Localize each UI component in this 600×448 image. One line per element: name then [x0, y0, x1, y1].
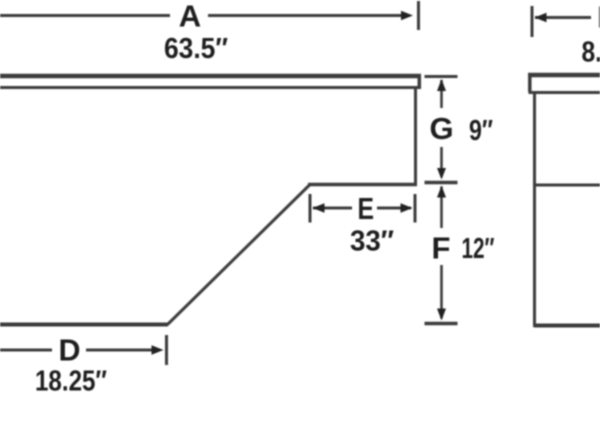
svg-text:33″: 33″: [350, 226, 394, 258]
dimension E left extension tick: [309, 194, 312, 223]
svg-text:G: G: [429, 111, 453, 146]
svg-text:8.5″: 8.5″: [582, 37, 600, 69]
toolbox end-view bottom edge: [534, 324, 600, 328]
svg-text:18.25″: 18.25″: [35, 366, 107, 398]
svg-text:A: A: [179, 0, 201, 34]
svg-text:F: F: [432, 231, 451, 266]
svg-text:D: D: [59, 333, 81, 368]
svg-text:63.5″: 63.5″: [164, 33, 228, 65]
dimension A right extension tick: [417, 1, 420, 30]
dimension B left extension tick: [531, 6, 534, 37]
dimension D line left segment: [0, 349, 52, 352]
svg-text:9″: 9″: [469, 115, 493, 147]
toolbox side-view lid bottom edge: [0, 86, 418, 89]
toolbox end-view lid top edge: [528, 73, 600, 78]
dimension G top tick: [425, 75, 458, 78]
dimension A line right segment: [208, 14, 403, 17]
dimension D line right segment with right arrowhead: [86, 349, 160, 352]
dimension F upper line with up arrowhead: [440, 187, 443, 229]
dimension G upper line with up arrowhead: [440, 80, 443, 108]
toolbox end-view mid shelf line: [534, 184, 600, 187]
svg-text:E: E: [358, 191, 375, 226]
dimension E line right segment with right arrowhead: [377, 207, 411, 210]
dimension E right extension tick: [414, 194, 417, 223]
toolbox side-view step bottom edge: [308, 183, 417, 187]
toolbox end-view lid bottom edge: [529, 91, 600, 94]
svg-text:12″: 12″: [462, 233, 495, 265]
toolbox end-view lid left end: [528, 73, 532, 92]
shared tick between G and F: [425, 181, 458, 185]
toolbox side-view lid right end: [418, 74, 422, 89]
dimension B line with left arrowhead: [535, 16, 591, 19]
dimension G lower line with down arrowhead: [440, 147, 443, 177]
toolbox end-view left wall: [533, 92, 536, 327]
dimension A line left segment: [0, 14, 170, 17]
dimension D right extension tick: [165, 335, 168, 365]
toolbox side-view bottom edge: [0, 323, 168, 327]
dimension E line left segment with left arrowhead: [313, 207, 352, 210]
dimension F lower line with down arrowhead: [440, 265, 443, 319]
toolbox side-view right wall: [414, 88, 417, 184]
toolbox side-view lid top edge: [0, 74, 421, 79]
dimension F bottom tick: [425, 322, 458, 326]
toolbox side-view diagonal front edge: [168, 185, 311, 325]
dimension A right arrowhead: [401, 11, 413, 20]
